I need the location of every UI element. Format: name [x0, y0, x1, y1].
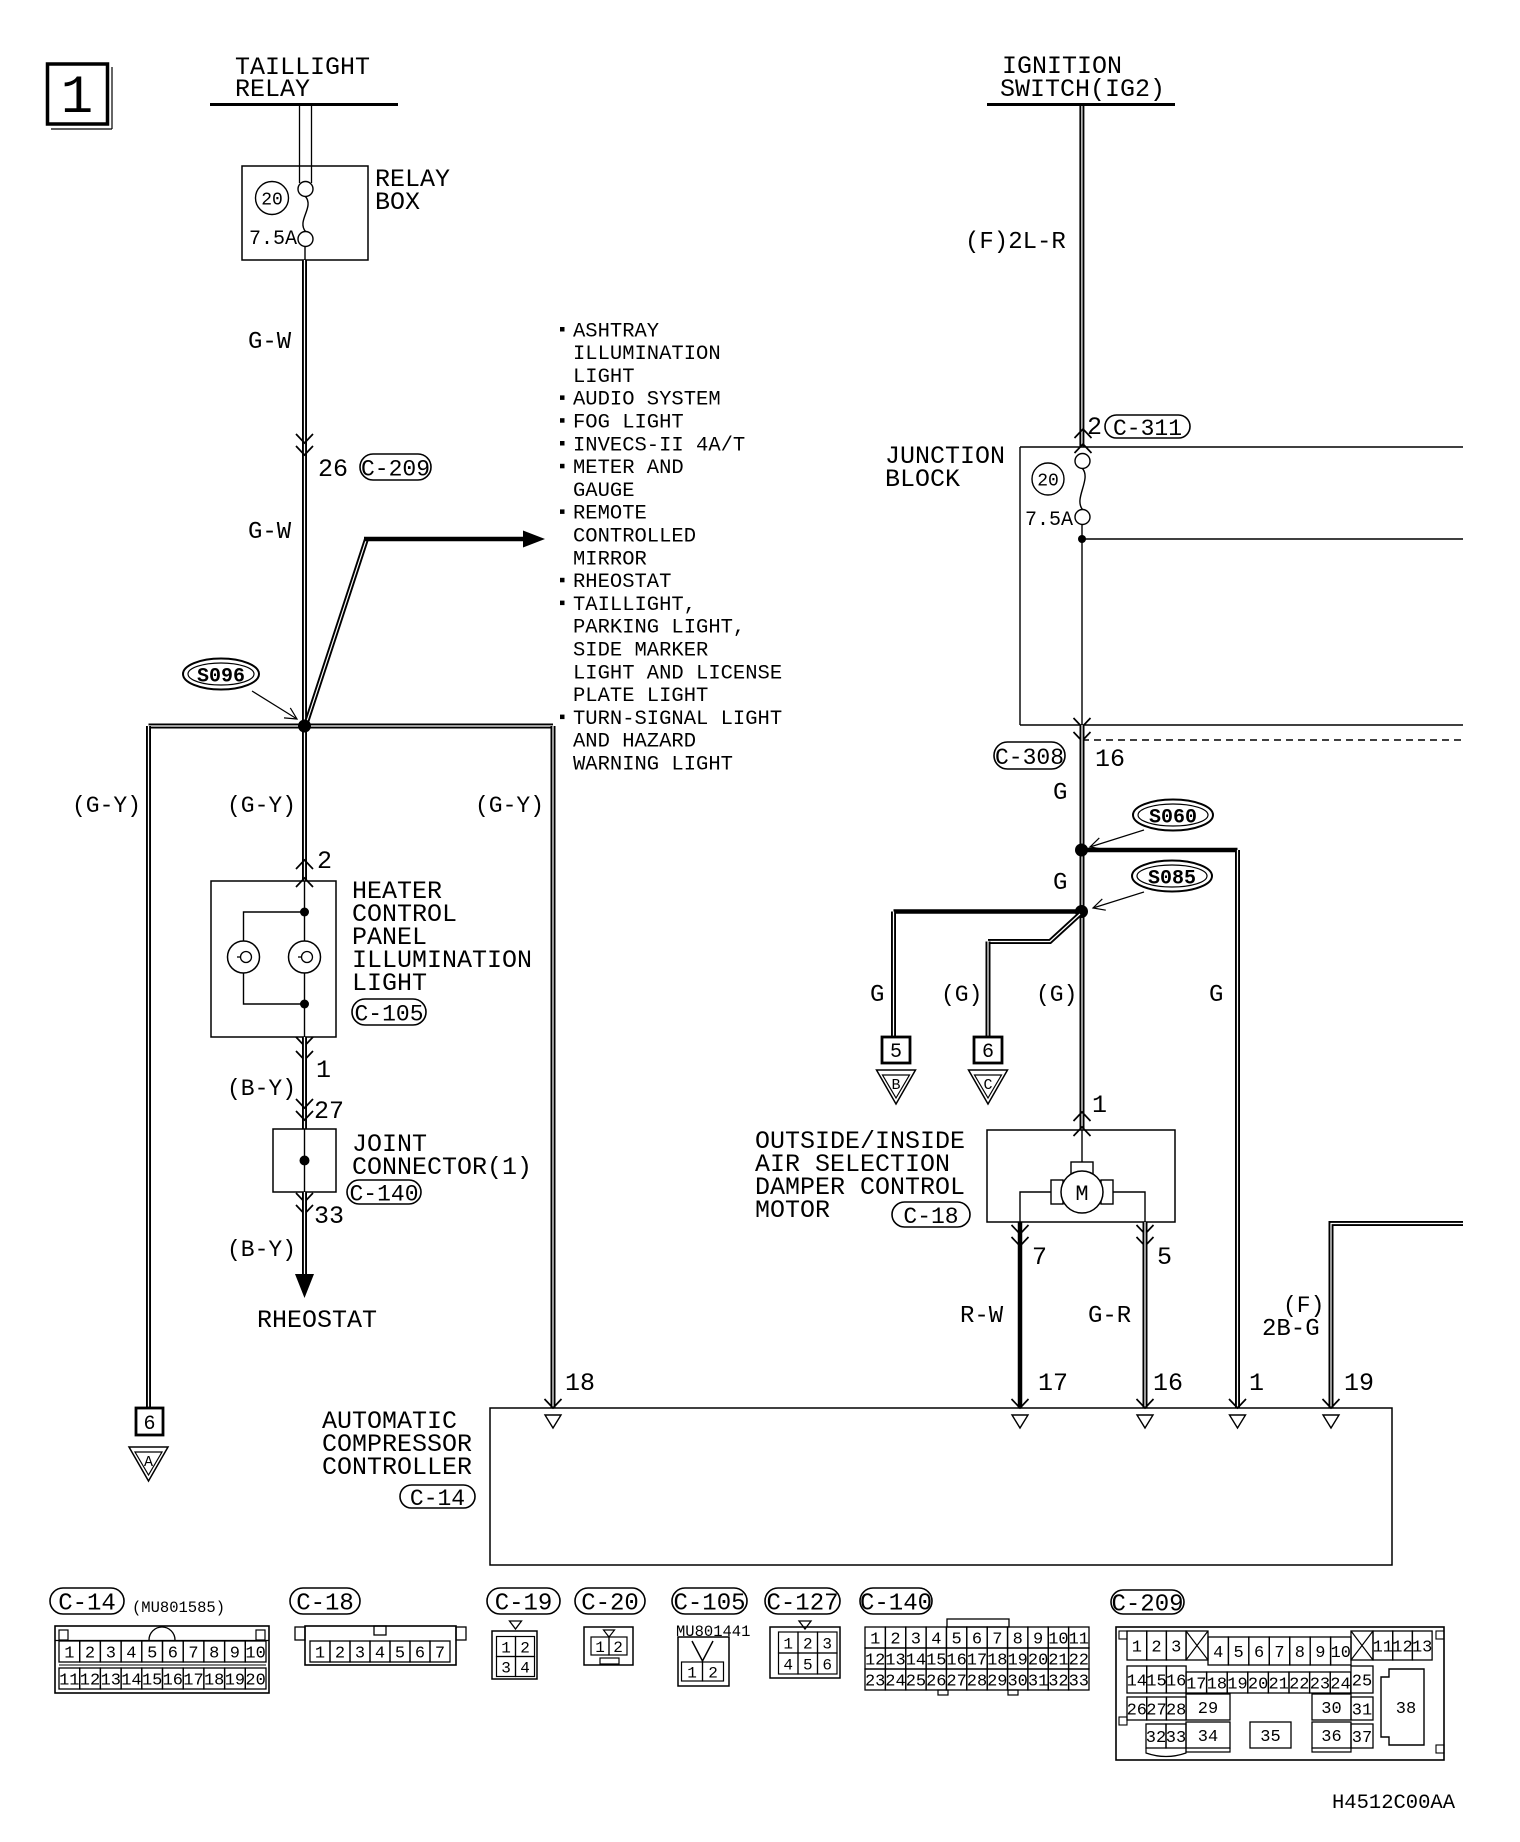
svg-text:PLATE LIGHT: PLATE LIGHT: [573, 685, 708, 708]
svg-text:1: 1: [64, 1644, 74, 1663]
svg-text:27: 27: [1146, 1701, 1166, 1720]
svg-text:13: 13: [101, 1671, 121, 1690]
svg-text:(F)2L-R: (F)2L-R: [965, 229, 1066, 256]
wire B-Y to rheostat: [302, 1192, 307, 1276]
connector C-20 pinout: [584, 1627, 633, 1665]
relay box: [242, 166, 368, 260]
svg-text:4: 4: [1213, 1644, 1223, 1663]
heater control panel box: [211, 881, 336, 1037]
svg-text:FOG LIGHT: FOG LIGHT: [573, 412, 684, 435]
arrow to rheostat: [295, 1274, 314, 1298]
svg-text:23: 23: [1310, 1675, 1330, 1694]
svg-text:MIRROR: MIRROR: [573, 548, 647, 571]
svg-text:AND HAZARD: AND HAZARD: [573, 731, 696, 754]
svg-text:2: 2: [1087, 413, 1102, 442]
chevrons junction block entry: [1075, 429, 1092, 453]
svg-text:G: G: [870, 982, 884, 1009]
svg-text:(MU801585): (MU801585): [132, 1599, 225, 1617]
svg-text:17: 17: [1038, 1369, 1068, 1398]
svg-text:G: G: [1209, 982, 1223, 1009]
svg-text:(G-Y): (G-Y): [72, 793, 141, 819]
connector C-18 label bottom: [290, 1588, 360, 1614]
dashed firewall line: [1082, 739, 1463, 741]
svg-text:WARNING LIGHT: WARNING LIGHT: [573, 754, 733, 777]
ignition switch label: [1000, 52, 1165, 104]
svg-text:8: 8: [1295, 1644, 1305, 1663]
connector label C-14: [400, 1485, 475, 1508]
svg-text:TURN-SIGNAL LIGHT: TURN-SIGNAL LIGHT: [573, 708, 782, 731]
svg-text:20: 20: [1028, 1651, 1048, 1670]
svg-text:(G-Y): (G-Y): [227, 793, 296, 819]
svg-text:SWITCH(IG2): SWITCH(IG2): [1000, 75, 1165, 104]
left G-Y wire: [146, 726, 151, 1408]
svg-text:3: 3: [501, 1659, 511, 1677]
svg-text:MU801441: MU801441: [676, 1623, 750, 1641]
svg-text:7: 7: [435, 1644, 445, 1663]
svg-text:15: 15: [142, 1671, 162, 1690]
svg-text:37: 37: [1352, 1729, 1372, 1748]
junction block box: [1020, 447, 1463, 725]
svg-text:C-105: C-105: [673, 1591, 745, 1618]
svg-text:C-209: C-209: [1111, 1592, 1183, 1619]
svg-text:31: 31: [1352, 1701, 1372, 1720]
splice S060: [1133, 800, 1213, 831]
svg-text:13: 13: [885, 1651, 905, 1670]
controller pin 16 entry: [1137, 1399, 1154, 1428]
svg-text:4: 4: [126, 1644, 136, 1663]
wire G-W relay box to junction S096: [302, 260, 307, 881]
branch wire to other loads: [307, 539, 523, 721]
page connector 6 box left: [136, 1408, 163, 1436]
controller pin 18 entry: [545, 1399, 562, 1428]
chevrons junction block exit: [1074, 718, 1091, 741]
svg-text:22: 22: [1069, 1651, 1089, 1670]
svg-text:3: 3: [355, 1644, 365, 1663]
svg-text:1: 1: [783, 1635, 793, 1653]
lamp 2 heater: [289, 941, 321, 973]
svg-text:5: 5: [147, 1644, 157, 1663]
svg-text:C: C: [983, 1077, 992, 1094]
motor labels: [755, 1127, 965, 1225]
svg-text:G-R: G-R: [1088, 1303, 1131, 1330]
svg-text:G: G: [1053, 780, 1067, 807]
junction block internal wire: [1081, 525, 1083, 726]
svg-text:C-308: C-308: [995, 745, 1064, 771]
svg-text:28: 28: [967, 1672, 987, 1691]
svg-text:5: 5: [1233, 1644, 1243, 1663]
svg-text:ILLUMINATION: ILLUMINATION: [573, 343, 721, 366]
svg-text:11: 11: [1069, 1630, 1089, 1649]
connector C-18 pinout: [295, 1626, 466, 1665]
svg-text:2: 2: [1151, 1638, 1161, 1657]
splice S096: [183, 659, 259, 690]
svg-text:C-140: C-140: [349, 1181, 418, 1207]
svg-text:G: G: [1053, 870, 1067, 897]
right G-Y wire to pin 18: [551, 726, 556, 1408]
svg-text:30: 30: [1321, 1700, 1341, 1719]
svg-text:C-140: C-140: [860, 1591, 932, 1618]
svg-text:17: 17: [1186, 1675, 1206, 1694]
automatic compressor controller box: [490, 1408, 1392, 1565]
fuse 20 in junction block: [1032, 454, 1090, 525]
svg-text:3: 3: [911, 1630, 921, 1649]
svg-text:METER AND: METER AND: [573, 457, 684, 480]
svg-text:33: 33: [1166, 1729, 1186, 1748]
page number box: [48, 64, 113, 129]
svg-text:25: 25: [906, 1672, 926, 1691]
svg-text:B: B: [891, 1077, 900, 1094]
taillight relay bus bar: [210, 103, 398, 106]
svg-text:18: 18: [1207, 1675, 1227, 1694]
svg-text:5: 5: [803, 1656, 813, 1674]
svg-text:22: 22: [1289, 1675, 1309, 1694]
svg-text:1: 1: [687, 1664, 697, 1682]
svg-text:4: 4: [375, 1644, 385, 1663]
svg-text:20: 20: [1248, 1675, 1268, 1694]
svg-text:LIGHT: LIGHT: [352, 969, 427, 998]
svg-text:1: 1: [316, 1056, 331, 1085]
page connector A triangle: [129, 1447, 168, 1481]
connector label C-311: [1105, 415, 1190, 438]
connector C-20 label bottom: [575, 1588, 645, 1614]
connector label C-209: [360, 454, 431, 480]
svg-text:11: 11: [59, 1671, 79, 1690]
arrow from S085 to junction: [1093, 892, 1144, 908]
svg-text:12: 12: [865, 1651, 885, 1670]
svg-text:6: 6: [1254, 1644, 1264, 1663]
svg-text:3: 3: [1171, 1638, 1181, 1657]
wire G to connector 6: [986, 942, 991, 1038]
svg-text:H4512C00AA: H4512C00AA: [1332, 1792, 1456, 1815]
svg-text:33: 33: [1069, 1672, 1089, 1691]
svg-text:16: 16: [1095, 745, 1125, 774]
svg-text:G-W: G-W: [248, 329, 292, 356]
svg-text:(G-Y): (G-Y): [475, 793, 544, 819]
svg-text:C-105: C-105: [354, 1001, 423, 1027]
svg-text:1: 1: [595, 1639, 605, 1657]
svg-text:12: 12: [80, 1671, 100, 1690]
svg-text:6: 6: [168, 1644, 178, 1663]
connector C-127 pinout: [770, 1621, 840, 1678]
svg-text:7.5A: 7.5A: [249, 228, 297, 251]
chevrons motor pin 7: [1012, 1225, 1029, 1246]
thick wire S085 branch: [894, 909, 1082, 914]
wire B-Y heater to joint connector: [302, 1037, 307, 1129]
svg-text:20: 20: [261, 191, 283, 211]
taillight relay label: [235, 53, 370, 104]
svg-text:2: 2: [613, 1639, 623, 1657]
svg-text:9: 9: [1033, 1630, 1043, 1649]
svg-text:S060: S060: [1149, 807, 1197, 830]
svg-text:RELAY: RELAY: [235, 75, 310, 104]
svg-text:10: 10: [245, 1644, 265, 1663]
page connector C triangle: [969, 1070, 1008, 1104]
svg-text:7: 7: [1032, 1243, 1047, 1272]
thick wire S060 branch: [1082, 848, 1238, 853]
ignition bus bar: [987, 103, 1175, 106]
svg-text:S096: S096: [197, 666, 245, 689]
svg-text:2: 2: [317, 847, 332, 876]
svg-text:18: 18: [565, 1369, 595, 1398]
svg-text:REMOTE: REMOTE: [573, 503, 647, 526]
svg-text:5: 5: [1157, 1243, 1172, 1272]
chevrons heater pin 1: [296, 1037, 313, 1060]
controller pin 17 entry: [1012, 1399, 1029, 1428]
wire R-W motor to controller: [1018, 1222, 1023, 1408]
connector label C-308: [994, 742, 1065, 769]
svg-text:AUDIO SYSTEM: AUDIO SYSTEM: [573, 389, 721, 412]
svg-text:20: 20: [1037, 472, 1059, 492]
svg-text:35: 35: [1260, 1728, 1280, 1747]
connector C-209 label bottom: [1111, 1590, 1184, 1614]
svg-text:LIGHT AND LICENSE: LIGHT AND LICENSE: [573, 662, 782, 685]
fuse 20 in relay box: [256, 182, 314, 247]
junction node S085: [1075, 905, 1088, 918]
connector C-105 pinout: [678, 1637, 729, 1686]
junction node S060: [1075, 844, 1088, 857]
svg-text:34: 34: [1198, 1728, 1218, 1747]
svg-text:INVECS-II 4A/T: INVECS-II 4A/T: [573, 434, 745, 457]
svg-text:15: 15: [926, 1651, 946, 1670]
svg-text:13: 13: [1412, 1638, 1432, 1657]
svg-text:10: 10: [1331, 1644, 1351, 1663]
svg-text:BLOCK: BLOCK: [885, 465, 960, 494]
svg-text:1: 1: [1132, 1638, 1142, 1657]
svg-text:2B-G: 2B-G: [1262, 1316, 1320, 1343]
svg-text:6: 6: [982, 1041, 994, 1064]
svg-text:C-19: C-19: [495, 1591, 553, 1618]
svg-text:19: 19: [1227, 1675, 1247, 1694]
svg-text:SIDE MARKER: SIDE MARKER: [573, 640, 708, 663]
svg-text:1: 1: [870, 1630, 880, 1649]
svg-text:30: 30: [1007, 1672, 1027, 1691]
svg-text:8: 8: [1013, 1630, 1023, 1649]
load list: [560, 320, 782, 776]
svg-text:1: 1: [315, 1644, 325, 1663]
svg-text:8: 8: [209, 1644, 219, 1663]
junction block internal node: [1078, 535, 1086, 543]
svg-text:1: 1: [1249, 1369, 1264, 1398]
chevrons motor pin 5: [1137, 1225, 1154, 1246]
svg-text:2: 2: [520, 1639, 530, 1657]
svg-text:(G): (G): [1036, 982, 1077, 1008]
svg-text:PARKING LIGHT,: PARKING LIGHT,: [573, 617, 745, 640]
junction block label: [885, 442, 1005, 494]
svg-text:18: 18: [204, 1671, 224, 1690]
svg-text:9: 9: [230, 1644, 240, 1663]
chevron connector crossing 27: [296, 1099, 313, 1120]
svg-text:RHEOSTAT: RHEOSTAT: [257, 1306, 377, 1335]
svg-text:CONTROLLED: CONTROLLED: [573, 526, 696, 549]
svg-text:11: 11: [1373, 1638, 1393, 1657]
svg-text:24: 24: [885, 1672, 905, 1691]
svg-text:R-W: R-W: [960, 1303, 1004, 1330]
svg-text:14: 14: [1127, 1672, 1147, 1691]
svg-text:9: 9: [1315, 1644, 1325, 1663]
svg-text:38: 38: [1396, 1700, 1416, 1719]
svg-text:14: 14: [906, 1651, 926, 1670]
svg-text:TAILLIGHT,: TAILLIGHT,: [573, 594, 696, 617]
connector C-140 label bottom: [860, 1588, 932, 1614]
connector C-14 pinout: [55, 1626, 269, 1693]
svg-text:28: 28: [1166, 1701, 1186, 1720]
joint connector box: [273, 1129, 336, 1192]
junction block internal bus: [1082, 538, 1463, 540]
svg-text:5: 5: [395, 1644, 405, 1663]
connector C-140 pinout: [865, 1619, 1089, 1695]
svg-text:3: 3: [822, 1635, 832, 1653]
svg-text:C-20: C-20: [581, 1591, 639, 1618]
svg-text:1: 1: [61, 68, 93, 129]
svg-text:2: 2: [335, 1644, 345, 1663]
lamp 1 heater: [228, 941, 260, 973]
wire G main vertical: [1080, 725, 1085, 1130]
connector label C-18: [892, 1202, 970, 1227]
svg-text:GAUGE: GAUGE: [573, 480, 635, 503]
svg-text:23: 23: [865, 1672, 885, 1691]
connector C-105 label bottom: [672, 1588, 747, 1614]
svg-text:12: 12: [1392, 1638, 1412, 1657]
joint connector node: [300, 1156, 310, 1166]
svg-text:C-209: C-209: [361, 456, 430, 482]
svg-text:14: 14: [121, 1671, 141, 1690]
svg-text:CONTROLLER: CONTROLLER: [322, 1453, 472, 1482]
svg-text:7.5A: 7.5A: [1025, 509, 1073, 532]
svg-text:2: 2: [803, 1635, 813, 1653]
diagonal branch from S085: [988, 914, 1080, 942]
wire taillight relay to relay box: [300, 106, 312, 183]
svg-text:16: 16: [163, 1671, 183, 1690]
svg-text:C-127: C-127: [766, 1591, 838, 1618]
svg-text:18: 18: [987, 1651, 1007, 1670]
svg-text:32: 32: [1146, 1729, 1166, 1748]
svg-text:20: 20: [245, 1671, 265, 1690]
svg-text:4: 4: [931, 1630, 941, 1649]
svg-text:5: 5: [890, 1041, 902, 1064]
svg-text:4: 4: [520, 1659, 530, 1677]
svg-text:2: 2: [85, 1644, 95, 1663]
damper control motor box: [987, 1130, 1175, 1222]
connector C-19 label bottom: [487, 1588, 560, 1614]
svg-text:36: 36: [1321, 1728, 1341, 1747]
svg-text:21: 21: [1268, 1675, 1288, 1694]
svg-text:MOTOR: MOTOR: [755, 1196, 830, 1225]
svg-text:29: 29: [987, 1672, 1007, 1691]
connector C-19 pinout: [492, 1621, 537, 1679]
svg-text:21: 21: [1048, 1651, 1068, 1670]
svg-text:7: 7: [992, 1630, 1002, 1649]
svg-text:C-18: C-18: [296, 1591, 354, 1618]
svg-text:7: 7: [188, 1644, 198, 1663]
svg-text:10: 10: [1048, 1630, 1068, 1649]
svg-text:(B-Y): (B-Y): [227, 1076, 296, 1102]
svg-text:31: 31: [1028, 1672, 1048, 1691]
arrow from S096 to junction: [252, 691, 297, 719]
chevrons heater pin 2: [296, 860, 313, 887]
svg-text:26: 26: [926, 1672, 946, 1691]
controller pin 19 entry: [1323, 1399, 1340, 1428]
svg-text:6: 6: [822, 1656, 832, 1674]
motor symbol: [1020, 1130, 1145, 1222]
heater internal wiring: [244, 881, 310, 1037]
svg-text:33: 33: [314, 1202, 344, 1231]
svg-text:17: 17: [183, 1671, 203, 1690]
svg-text:C-18: C-18: [903, 1204, 958, 1230]
splice S085: [1132, 861, 1212, 892]
junction node S096: [298, 720, 311, 733]
svg-text:17: 17: [967, 1651, 987, 1670]
wire G down to controller pin 1: [1235, 850, 1240, 1408]
svg-text:27: 27: [946, 1672, 966, 1691]
chevron connector crossing 26: [296, 434, 313, 455]
svg-text:2: 2: [890, 1630, 900, 1649]
chevrons motor pin 1: [1074, 1112, 1091, 1136]
svg-text:(B-Y): (B-Y): [227, 1237, 296, 1263]
svg-text:26: 26: [318, 455, 348, 484]
svg-text:BOX: BOX: [375, 188, 420, 217]
svg-text:16: 16: [1153, 1369, 1183, 1398]
wire fuse to relay box bottom: [304, 247, 306, 261]
svg-text:15: 15: [1146, 1672, 1166, 1691]
svg-text:27: 27: [314, 1097, 344, 1126]
connector C-209 pinout: [1116, 1627, 1444, 1760]
svg-text:2: 2: [708, 1664, 718, 1682]
relay box label: [375, 165, 450, 217]
svg-text:CONNECTOR(1): CONNECTOR(1): [352, 1153, 532, 1182]
svg-text:3: 3: [106, 1644, 116, 1663]
heater box labels: [352, 877, 532, 998]
connector label C-105: [352, 999, 426, 1025]
G-Y bus wire: [149, 724, 554, 729]
svg-text:16: 16: [1166, 1672, 1186, 1691]
svg-text:16: 16: [946, 1651, 966, 1670]
svg-text:6: 6: [143, 1413, 155, 1436]
arrow to other loads: [523, 531, 545, 548]
connector C-127 label bottom: [765, 1588, 840, 1614]
svg-text:(G): (G): [941, 982, 982, 1008]
svg-text:C-311: C-311: [1113, 416, 1182, 442]
svg-text:19: 19: [1344, 1369, 1374, 1398]
svg-text:C-14: C-14: [410, 1486, 465, 1512]
svg-text:19: 19: [1007, 1651, 1027, 1670]
svg-text:24: 24: [1330, 1675, 1350, 1694]
joint connector labels: [352, 1130, 532, 1182]
svg-text:26: 26: [1127, 1701, 1147, 1720]
wire G-R motor to controller: [1143, 1222, 1148, 1408]
svg-text:4: 4: [783, 1656, 793, 1674]
connector 6 box: [974, 1037, 1002, 1064]
svg-text:32: 32: [1048, 1672, 1068, 1691]
svg-text:25: 25: [1352, 1672, 1372, 1691]
controller pin 1 entry: [1229, 1399, 1246, 1428]
connector 5 box: [882, 1037, 910, 1064]
connector C-14 label bottom: [50, 1588, 124, 1614]
svg-text:G-W: G-W: [248, 519, 292, 546]
connector label C-140: [347, 1180, 421, 1204]
svg-text:1: 1: [501, 1639, 511, 1657]
chevron connector crossing 33: [296, 1193, 313, 1214]
svg-text:6: 6: [415, 1644, 425, 1663]
svg-text:19: 19: [225, 1671, 245, 1690]
page connector B triangle: [877, 1070, 916, 1104]
svg-text:RHEOSTAT: RHEOSTAT: [573, 571, 671, 594]
svg-text:7: 7: [1274, 1644, 1284, 1663]
svg-text:5: 5: [951, 1630, 961, 1649]
arrow from S060 to junction: [1090, 830, 1144, 847]
svg-text:S085: S085: [1148, 868, 1196, 891]
svg-text:M: M: [1075, 1182, 1088, 1207]
wire G to connector 5: [891, 912, 896, 1038]
